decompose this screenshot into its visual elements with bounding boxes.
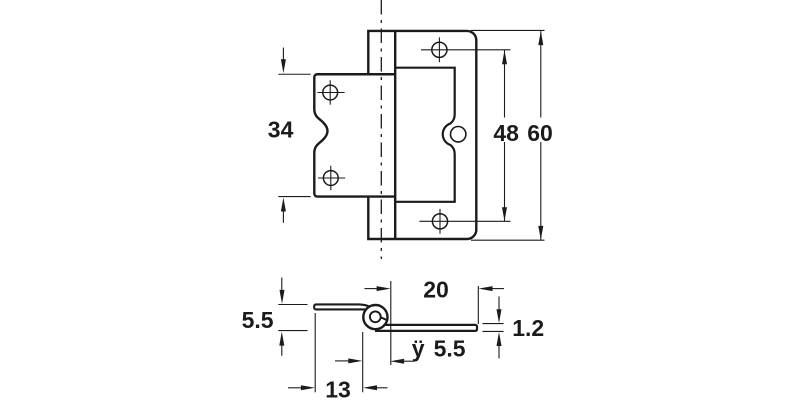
inner cutout rectangle of right leaf with scalloped edge <box>395 68 455 202</box>
dim 20 extension line right (leaf end) <box>477 286 479 324</box>
knuckle pin hole circle <box>370 311 381 322</box>
dim 20 left arrow (right-pointing) <box>365 288 378 290</box>
screw hole left leaf bottom <box>323 171 338 186</box>
svg-text:60: 60 <box>527 120 553 146</box>
dim 1.2 extension lines <box>483 323 504 325</box>
dim 5.5 bottom arrow (up) <box>281 345 283 356</box>
dim o5.5 right arrow (left-pointing) <box>403 360 414 362</box>
dim 20 extension line left (loop edge) <box>390 281 392 365</box>
curl end edge <box>381 317 388 320</box>
dim 60 extension lines <box>471 29 545 31</box>
svg-text:ÿ: ÿ <box>412 336 425 362</box>
dim 60 line with arrows <box>540 31 542 117</box>
dim 34 bottom arrow (up) <box>282 211 284 223</box>
knuckle + right leaf outline <box>368 31 476 239</box>
knuckle curl outer circle <box>363 305 387 329</box>
dim 5.5 top arrow (down) <box>281 278 283 291</box>
svg-text:48: 48 <box>493 120 519 146</box>
dim 13 extension line right (loop left edge) <box>362 332 364 392</box>
dim 34 top arrow (down) <box>282 48 284 60</box>
svg-text:1.2: 1.2 <box>512 315 544 341</box>
dim 34 top extension line <box>278 73 310 75</box>
dim 13 extension line left <box>314 313 316 392</box>
screw hole right leaf bottom <box>432 214 447 229</box>
dim o5.5 left arrow (right-pointing) <box>335 360 349 362</box>
svg-text:34: 34 <box>268 116 294 142</box>
middle pin hole on right leaf <box>451 127 466 142</box>
dim 13 right arrow (left-pointing) <box>376 387 388 389</box>
dim 48 line with arrows <box>504 50 506 117</box>
right leaf left edge (knuckle right edge) <box>394 31 396 239</box>
dim 20 right arrow (left-pointing) <box>492 288 505 290</box>
dim 1.2 bottom arrow (up) <box>498 346 500 359</box>
centerline (hinge pin axis, dashed) <box>380 0 382 259</box>
dim 34 bottom extension line <box>278 196 310 198</box>
top hole centerline extended to 48-dim <box>421 49 511 51</box>
bottom hole centerline extended to 48-dim <box>419 220 510 222</box>
svg-text:13: 13 <box>325 376 351 400</box>
right strip (lower leaf in profile) <box>375 325 477 331</box>
screw hole right leaf top <box>432 42 447 57</box>
dim 13 left arrow (right-pointing) <box>288 387 302 389</box>
dim 1.2 top arrow (down) <box>498 297 500 311</box>
left strip (upper leaf in profile) <box>314 304 369 309</box>
dim 5.5 (left) extension lines <box>278 304 307 306</box>
left leaf outline with scalloped edge <box>314 74 394 196</box>
svg-text:20: 20 <box>423 276 449 302</box>
screw hole left leaf top <box>323 85 338 100</box>
svg-text:5.5: 5.5 <box>434 336 466 362</box>
svg-text:5.5: 5.5 <box>242 307 274 333</box>
